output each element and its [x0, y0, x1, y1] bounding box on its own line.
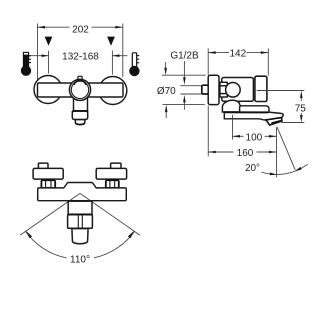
dimension 132-168 arrow left: [42, 54, 49, 57]
cold water thermometer (right, open stem): [129, 53, 139, 76]
svg-text:142: 142: [229, 49, 246, 60]
dimension 100 arrow left: [233, 135, 241, 138]
svg-text:202: 202: [72, 24, 89, 35]
faucet body bar (plan) with raised centre: [38, 183, 127, 201]
spray 20 degree slant line: [277, 127, 295, 170]
hot water thermometer (left, filled stem): [21, 52, 31, 76]
right escutcheon circle: [99, 77, 127, 105]
spout tube (side): [224, 112, 283, 120]
left union nut (plan): [41, 180, 55, 188]
dimension 160 line: [208, 151, 276, 153]
dimension 160 extension line left: [207, 106, 209, 157]
plumb line through outlet: [276, 127, 278, 177]
supply pipe lines: [180, 85, 202, 87]
20 degree arc: [261, 164, 308, 174]
spout block facet lines: [77, 215, 79, 228]
diameter 70 reference line bottom: [163, 104, 205, 106]
20 degree arc arrow at slant line: [295, 167, 302, 171]
110 degree radial line right: [80, 193, 140, 235]
dimension 132-168 arrow right: [112, 54, 119, 57]
right union nut (plan): [106, 180, 119, 188]
dimension 202 line: [38, 26, 123, 28]
dimension 202 arrow left: [38, 26, 46, 29]
dimension 75 reference line bottom: [282, 122, 305, 124]
union nut (side): [220, 82, 227, 97]
dimension 142 arrow left: [208, 51, 216, 54]
spout tube bold top edge: [225, 111, 269, 113]
dimension 100 extension line: [232, 115, 234, 140]
dimension 100 line: [233, 135, 277, 137]
cartridge top tab: [78, 76, 83, 80]
aerator nozzle (side): [266, 118, 282, 125]
diameter 70 reference line top: [162, 74, 206, 76]
spout block divider bold: [68, 213, 92, 215]
mounting position solid arrow left: [45, 37, 53, 46]
spout block upper (plan): [68, 201, 92, 214]
dimension 202 extension line right: [122, 24, 124, 78]
right flange (plan): [96, 168, 126, 179]
right wall stub (plan): [111, 163, 121, 170]
aerator nozzle dark band: [272, 121, 282, 123]
diameter 70 arrow down: [165, 62, 167, 69]
dimension 142 arrow right: [261, 51, 269, 54]
spout back slab (side): [240, 106, 269, 113]
dimension 132-168 extension line right: [111, 51, 113, 75]
spout elbow dome (side): [222, 100, 240, 112]
mounting position solid arrow right: [107, 37, 115, 46]
cartridge inner circle: [71, 81, 88, 98]
svg-text:110°: 110°: [70, 254, 90, 265]
svg-text:132-168: 132-168: [62, 52, 99, 63]
aerator bottom bold edge: [76, 123, 85, 124]
dimension 75 reference line top: [257, 90, 305, 92]
dimension 132-168 extension line left: [48, 51, 50, 74]
svg-text:75: 75: [295, 103, 307, 114]
wall flange (side): [208, 75, 219, 104]
svg-text:20°: 20°: [245, 163, 260, 174]
wall pipe stub (side): [202, 85, 209, 94]
svg-text:100: 100: [246, 132, 263, 143]
dimension 142 line: [208, 52, 268, 54]
left wall stub (plan): [38, 163, 48, 170]
dimension 160 arrow right: [269, 151, 277, 154]
dimension 132-168 line tails: [30, 55, 128, 57]
20 degree arc arrow at plumb line: [270, 172, 277, 175]
G1/2B arrow up: [183, 102, 185, 110]
dimension 160 arrow left: [208, 151, 216, 154]
left flange (plan): [33, 168, 63, 179]
aerator (plan): [72, 229, 88, 244]
110 degree arc arrow right: [128, 231, 134, 239]
spout body (front): [72, 111, 87, 120]
ball joint circle (side): [226, 83, 241, 98]
110 degree arc: [26, 232, 135, 258]
svg-text:Ø70: Ø70: [157, 86, 176, 97]
left escutcheon circle: [34, 76, 62, 104]
cartridge end cap (side): [255, 76, 267, 101]
dimension 202 arrow right: [115, 26, 123, 29]
diameter 70 arrow up: [165, 112, 167, 118]
dimension 100 arrow right: [269, 135, 277, 138]
svg-text:160: 160: [237, 148, 254, 159]
dimension 75 line: [300, 98, 302, 117]
dimension 202 extension line left: [37, 24, 39, 80]
spout upper tube (front): [74, 95, 88, 111]
svg-text:G1/2B: G1/2B: [170, 50, 199, 61]
dimension 142 extension line right: [267, 49, 269, 76]
spout block lower (plan): [68, 215, 93, 229]
spout body bold shoulder line: [72, 111, 87, 112]
aerator (front): [75, 120, 85, 125]
110 degree arc arrow left: [26, 231, 32, 239]
110 degree radial line left: [20, 193, 80, 235]
dimension 75 arrow up: [300, 91, 303, 99]
dimension 75 arrow down: [300, 115, 303, 123]
cartridge dome detail arc: [74, 81, 86, 85]
G1/2B arrow down: [183, 61, 185, 78]
valve body (side): [222, 78, 254, 102]
cartridge outer circle: [69, 79, 90, 100]
dimension 142 extension line left: [207, 49, 209, 76]
faucet body bar (front): [38, 83, 124, 97]
